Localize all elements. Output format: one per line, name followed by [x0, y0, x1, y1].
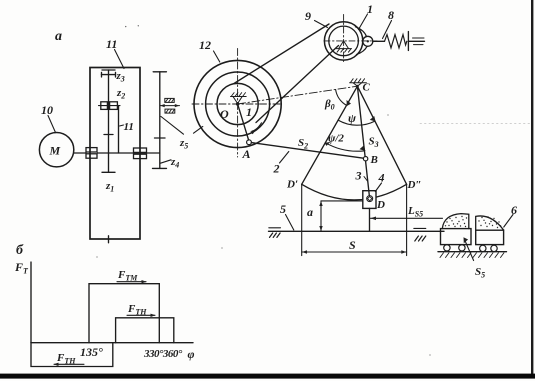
- beta0 arc: [336, 90, 347, 106]
- svg-text:D′: D′: [286, 179, 298, 191]
- crank centerlines: [324, 15, 377, 62]
- svg-text:б: б: [16, 243, 24, 258]
- psi arc: [338, 120, 375, 125]
- bottom wall tick: [108, 236, 110, 243]
- svg-text:C: C: [363, 82, 371, 94]
- svg-text:12: 12: [199, 38, 211, 52]
- dimension a: [320, 201, 322, 231]
- shaft II vertical: [118, 106, 120, 153]
- svg-text:3: 3: [355, 169, 362, 183]
- cart right dome: [478, 216, 501, 228]
- svg-text:5: 5: [280, 202, 286, 216]
- countershaft: [108, 70, 110, 172]
- svg-text:S3: S3: [369, 136, 379, 150]
- belt coupling symbol: [160, 98, 180, 113]
- svg-text:S2: S2: [298, 137, 308, 151]
- pin D: [367, 196, 373, 202]
- pin B: [363, 157, 367, 161]
- gearbox housing: [90, 68, 140, 240]
- graph negative pulse FTH: [31, 343, 113, 367]
- svg-text:z4: z4: [170, 156, 179, 170]
- ground line 5: [269, 230, 445, 232]
- gear z2: [101, 102, 108, 110]
- graph mid pulse FTH: [116, 318, 174, 343]
- svg-text:S: S: [349, 238, 356, 252]
- slider block 4: [363, 191, 376, 209]
- svg-text:β0: β0: [324, 98, 335, 112]
- svg-text:z5: z5: [179, 137, 188, 151]
- gear tick z5: [155, 137, 166, 139]
- svg-text:2: 2: [273, 162, 280, 176]
- svg-text:z1: z1: [105, 180, 114, 194]
- graph y axis: [30, 262, 32, 343]
- svg-text:a: a: [307, 205, 313, 219]
- dash-dot line C to O: [238, 86, 358, 104]
- faint scan artifact dotted line: [420, 123, 531, 125]
- svg-text:8: 8: [388, 8, 394, 22]
- connecting rod 2 from A to B: [251, 143, 363, 159]
- scan speckles: [96, 25, 430, 356]
- svg-text:135°: 135°: [80, 345, 103, 359]
- output shaft z4 z5: [159, 72, 161, 169]
- svg-text:9: 9: [305, 9, 311, 23]
- svg-text:330°360°: 330°360°: [143, 348, 183, 360]
- svg-text:LS5: LS5: [407, 205, 423, 219]
- svg-text:FTH: FTH: [127, 303, 147, 317]
- svg-text:ψ: ψ: [348, 111, 357, 125]
- cart right body: [476, 230, 504, 244]
- svg-text:FT: FT: [14, 260, 29, 276]
- svg-text:M: M: [49, 144, 61, 158]
- graph x axis: [31, 342, 193, 344]
- pulley 12: [194, 60, 281, 147]
- cart left body: [441, 229, 472, 245]
- cart left dome: [445, 216, 467, 227]
- svg-text:FTM: FTM: [117, 269, 138, 283]
- svg-text:a: a: [55, 29, 62, 44]
- dimension L_S5: [370, 217, 442, 219]
- pulley centerlines: [192, 49, 282, 158]
- spring 8: [373, 40, 385, 42]
- cart right wheels: [480, 245, 486, 251]
- dimension S: [301, 184, 303, 255]
- psi/2 arc: [325, 143, 364, 152]
- crank OA: [238, 104, 249, 140]
- pendulum line C-D'': [357, 86, 406, 184]
- roller pin: [363, 36, 373, 46]
- gear on left wall: [86, 148, 97, 152]
- rail symbol middle: [414, 227, 426, 229]
- bearing tick: [104, 134, 113, 136]
- svg-text:B: B: [370, 154, 378, 166]
- rotation arrow: [252, 123, 262, 131]
- belt upper line: [234, 24, 329, 84]
- svg-text:11: 11: [124, 121, 134, 133]
- swing arc D'-D'': [302, 184, 407, 200]
- svg-text:z2: z2: [116, 87, 125, 101]
- frame right border: [531, 0, 533, 377]
- svg-text:S5: S5: [475, 266, 485, 280]
- svg-text:6: 6: [511, 203, 517, 217]
- pivot C support: [350, 79, 367, 86]
- rail symbol left: [269, 227, 281, 229]
- graph tall pulse FTM: [89, 284, 159, 343]
- crank pulley 9: [324, 22, 362, 60]
- svg-text:O: O: [220, 107, 229, 121]
- svg-text:D″: D″: [407, 179, 422, 191]
- svg-text:ψ/2: ψ/2: [328, 133, 344, 145]
- svg-text:D: D: [376, 199, 385, 211]
- cart ground: [438, 251, 507, 253]
- frame bottom bar: [0, 374, 535, 379]
- svg-text:11: 11: [106, 37, 117, 51]
- pendulum rod C-B-D: [357, 86, 369, 195]
- svg-text:φ: φ: [188, 347, 195, 361]
- svg-text:4: 4: [378, 171, 385, 185]
- pin A: [247, 140, 252, 145]
- svg-text:FTH: FTH: [56, 352, 76, 366]
- belt lower line: [256, 46, 339, 123]
- svg-text:1: 1: [246, 105, 252, 119]
- pivot at O: [231, 93, 247, 104]
- motor shaft (shaft I): [74, 152, 86, 154]
- cart left wheels: [444, 245, 450, 251]
- slider extension line: [369, 208, 371, 231]
- gear z3: [102, 74, 116, 76]
- pivot at crank center: [336, 41, 352, 52]
- spring wall anchor: [407, 32, 409, 51]
- pendulum line C-D': [302, 86, 358, 184]
- motor 10: [39, 133, 73, 167]
- svg-text:A: A: [242, 147, 251, 161]
- svg-text:z3: z3: [116, 70, 125, 84]
- svg-text:10: 10: [41, 103, 53, 117]
- gear on right wall: [134, 148, 147, 152]
